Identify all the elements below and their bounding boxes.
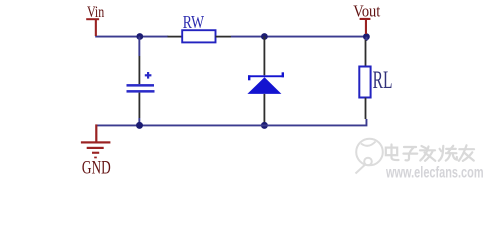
svg-text:GND: GND [82,156,111,178]
ground GND [81,124,111,158]
port Vin [86,18,99,36]
node junction top zener [261,33,268,40]
svg-text:Vout: Vout [353,3,381,21]
watermark text elecfans url [385,163,483,181]
wire capacitor bottom stub [138,118,140,125]
port Vout [360,18,371,34]
wire RW left pin [168,36,183,38]
node junction top capacitor [136,33,143,40]
capacitor C1 pin top [139,56,141,84]
svg-text:Vin: Vin [87,4,104,21]
watermark text elecfans chinese [386,145,474,161]
wire top rail right (RW to Vout) [231,36,367,38]
label RL [373,66,393,94]
resistor RL pin top [365,40,367,66]
zener pin top [264,37,266,76]
zener diode D1 [247,72,284,94]
zener pin bottom [264,94,266,122]
watermark logo [356,139,383,174]
wire RW right pin [216,36,232,38]
capacitor C1 pin bottom [139,93,141,118]
label GND [82,156,111,178]
wire RL top stub [366,37,368,41]
label Vout [353,3,381,21]
svg-text:RW: RW [183,13,205,32]
svg-text:www.elecfans.com: www.elecfans.com [385,163,483,181]
svg-text:RL: RL [373,66,393,94]
resistor RL [359,67,370,98]
label RW [183,13,205,32]
wire capacitor top stub [138,37,140,57]
resistor RL pin bottom [365,98,367,119]
node junction bottom zener [261,122,268,129]
wire RL bottom corner [96,119,367,126]
capacitor C1 polarized [127,72,155,93]
node junction top Vout [363,33,370,40]
label Vin [87,4,104,21]
resistor RW [182,30,215,42]
wire top rail left (Vin to RW left pin) [95,36,168,38]
node junction bottom capacitor [136,122,143,129]
